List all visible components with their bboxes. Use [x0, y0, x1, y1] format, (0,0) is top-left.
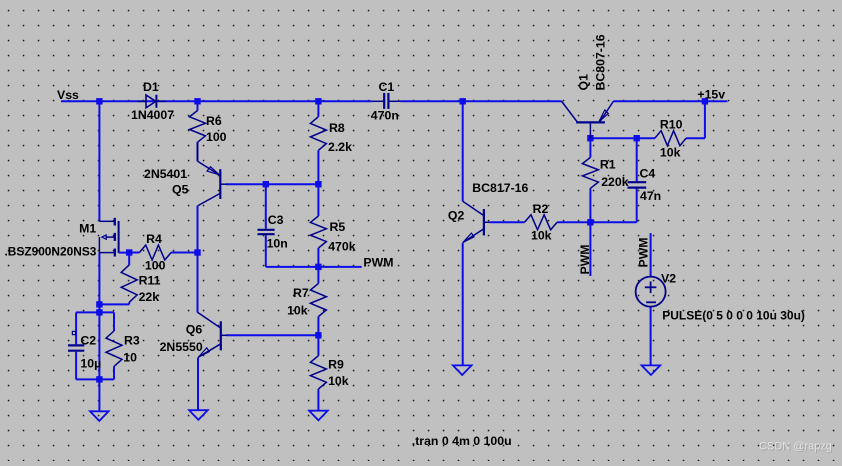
svg-text:R7: R7: [293, 286, 309, 300]
wire PWM stub above V2: [650, 233, 652, 277]
svg-text:.BSZ900N20NS3: .BSZ900N20NS3: [5, 245, 97, 259]
resistor R7: [310, 283, 326, 316]
ground at Q2 emitter: [453, 365, 472, 375]
svg-text:C3: C3: [268, 213, 284, 227]
transistor Q5 (PNP 2N5401): [198, 161, 228, 206]
resistor R11: [121, 265, 137, 302]
wire ground lead left: [98, 379, 100, 411]
wire V2 bottom lead: [650, 307, 652, 366]
wire C3 bottom lead: [265, 235, 267, 267]
wire Q5 collector to Q6 collector: [197, 206, 199, 313]
capacitor C2: [68, 331, 84, 350]
wire C3 top lead: [265, 184, 267, 229]
svg-text:C1: C1: [379, 80, 395, 94]
transistor Q2 (NPN BC817-16): [463, 201, 490, 242]
wire PWM stub below R2 node: [589, 222, 591, 276]
svg-text:PWM: PWM: [363, 255, 393, 269]
transistor Q6 (NPN 2N5550): [198, 312, 228, 357]
wire R11 bottom lead: [128, 302, 130, 304]
wire M1 source down: [98, 253, 100, 380]
junction R7 / R9 / Q6 base: [315, 332, 321, 338]
junction R10 / C4: [634, 135, 640, 141]
resistor R5: [310, 216, 326, 248]
svg-text:R9: R9: [328, 358, 344, 372]
ground at M1 source branch: [90, 411, 109, 421]
svg-text:BC807-16: BC807-16: [594, 34, 608, 90]
svg-text:100: 100: [206, 130, 227, 144]
wire C4 top lead: [636, 138, 638, 181]
wire Q6 base to divider: [226, 334, 318, 336]
wire R8 bottom lead: [317, 150, 319, 184]
ground at Q6 emitter: [189, 410, 208, 420]
wire R5 bottom lead: [317, 248, 319, 267]
junction C2-R3 bottom / ground: [96, 376, 102, 382]
transistor Q1 (PNP BC807-16): [561, 101, 613, 138]
junction R2 / R1 / PWM: [587, 219, 593, 225]
svg-text:1N4007: 1N4007: [131, 108, 174, 122]
svg-text:2N5401: 2N5401: [144, 167, 187, 181]
wire top rail middle segment: [401, 100, 562, 102]
resistor R1: [582, 157, 598, 188]
wire Q2 collector from top rail: [462, 101, 464, 201]
junction M1 gate / R4 / R11: [126, 249, 132, 255]
wire M1 drain from top rail: [98, 101, 100, 221]
wire C4 bottom lead: [636, 189, 638, 223]
svg-text:PULSE(0 5 0 0 0 10u 30u): PULSE(0 5 0 0 0 10u 30u): [662, 309, 805, 323]
wire R10 left lead: [637, 137, 655, 139]
resistor R3: [106, 331, 122, 366]
svg-text:10µ: 10µ: [80, 357, 101, 371]
resistor R4: [139, 245, 171, 260]
wire R7 bottom lead: [317, 317, 319, 336]
junction Q5 base / C3: [263, 181, 269, 187]
wire R4 right lead: [171, 252, 197, 254]
wire PWM stub at R5 node: [318, 266, 361, 268]
svg-text:10: 10: [123, 350, 137, 364]
capacitor C4: [628, 182, 647, 187]
wire R5 top lead: [317, 184, 319, 216]
svg-text:10k: 10k: [660, 146, 681, 160]
svg-text:10k: 10k: [287, 304, 308, 318]
junction top rail / R8: [315, 98, 321, 104]
wire R3 top lead: [113, 312, 115, 331]
wire top rail right segment: [614, 100, 728, 102]
wire R3 bottom lead: [113, 366, 115, 379]
wire R9 bottom lead: [317, 389, 319, 411]
svg-text:+15v: +15v: [697, 88, 725, 102]
svg-text:CSDN @rapzg: CSDN @rapzg: [759, 441, 832, 453]
svg-text:R5: R5: [330, 220, 346, 234]
svg-text:D1: D1: [143, 80, 159, 94]
svg-text:470n: 470n: [371, 109, 399, 123]
wire R8 top lead: [317, 101, 319, 116]
wire R1 top lead: [589, 138, 591, 157]
ground at V2: [642, 365, 661, 375]
svg-text:22k: 22k: [139, 290, 160, 304]
junction R11 / source rail: [96, 301, 102, 307]
wire Vss horizontal top rail left segment: [61, 100, 372, 102]
svg-text:PWM: PWM: [578, 244, 592, 274]
svg-text:PWM: PWM: [637, 237, 651, 267]
wire R11 bottom to source rail: [99, 303, 129, 305]
svg-text:2N5550: 2N5550: [160, 340, 203, 354]
wire C2 R3 top rail: [76, 311, 114, 313]
wire R1 node to C4: [590, 221, 636, 223]
wire R11 top lead: [128, 253, 130, 265]
svg-text:470k: 470k: [328, 240, 356, 254]
svg-text:Vss: Vss: [57, 88, 79, 102]
svg-text:R3: R3: [124, 333, 140, 347]
wire R2 left lead: [490, 221, 525, 223]
junction Vss / M1 drain: [96, 98, 102, 104]
svg-text:100: 100: [145, 259, 166, 273]
svg-text:Q2: Q2: [448, 208, 465, 222]
diode D1: [138, 95, 167, 108]
junction R4 / Q5-Q6 collectors: [194, 249, 200, 255]
transistor M1 (MOSFET): [99, 218, 129, 257]
wire R10 right lead: [686, 137, 705, 139]
svg-text:220k: 220k: [601, 175, 629, 189]
svg-text:.tran 0 4m 0 100u: .tran 0 4m 0 100u: [412, 434, 512, 448]
svg-text:Q1: Q1: [577, 74, 591, 91]
svg-text:R1: R1: [600, 158, 616, 172]
junction R8 / R5: [315, 181, 321, 187]
watermark CSDN: [759, 441, 833, 454]
junction top rail / Q2: [460, 98, 466, 104]
wire R6 bottom lead: [197, 142, 199, 161]
wire R9 top lead: [317, 335, 319, 355]
svg-text:10k: 10k: [328, 374, 349, 388]
junction top rail / +15v: [702, 98, 708, 104]
wire R1 bottom lead: [589, 188, 591, 222]
svg-text:10k: 10k: [531, 229, 552, 243]
svg-text:C2: C2: [80, 333, 96, 347]
svg-text:47n: 47n: [640, 189, 661, 203]
junction R5 / R7 / PWM: [315, 264, 321, 270]
junction top rail / R6: [194, 98, 200, 104]
svg-text:R2: R2: [533, 202, 549, 216]
svg-text:V2: V2: [661, 272, 676, 286]
svg-text:Q6: Q6: [186, 322, 203, 336]
svg-text:R8: R8: [329, 121, 345, 135]
resistor R2: [525, 215, 558, 230]
svg-text:Q5: Q5: [172, 183, 189, 197]
wire R4 left lead: [129, 252, 139, 254]
svg-text:R10: R10: [660, 118, 683, 132]
wire Q1 base node to R10: [590, 137, 636, 139]
resistor R6: [190, 111, 206, 162]
capacitor C3: [258, 230, 275, 234]
ground at R9: [309, 411, 328, 421]
svg-text:M1: M1: [79, 222, 96, 236]
wire C2 R3 bottom rail: [76, 378, 114, 380]
wire C2 bottom lead: [75, 352, 77, 380]
svg-text:C4: C4: [640, 166, 656, 180]
wire Q2 emitter down: [462, 243, 464, 366]
resistor R10: [655, 131, 686, 146]
resistor R8: [310, 117, 326, 151]
svg-text:R11: R11: [139, 274, 161, 288]
wire Q5 base to node: [226, 183, 318, 185]
voltage source V2: [636, 277, 666, 307]
svg-text:10n: 10n: [267, 237, 288, 251]
svg-text:R6: R6: [206, 114, 222, 128]
wire R7 top lead: [317, 267, 319, 284]
resistor R9: [310, 356, 326, 389]
wire C2 top lead: [75, 312, 77, 344]
wire R6 top lead: [197, 101, 199, 110]
wire R2 right lead: [557, 221, 590, 223]
wire +15v drop to R10: [704, 101, 706, 138]
junction Q1 base / R1: [587, 135, 593, 141]
wire Q6 emitter down: [197, 357, 199, 410]
capacitor C1: [372, 93, 401, 109]
svg-text:BC817-16: BC817-16: [472, 181, 528, 195]
svg-text:2.2k: 2.2k: [328, 140, 352, 154]
junction C2-R3 rail / source: [96, 309, 102, 315]
svg-text:R4: R4: [146, 232, 162, 246]
wire C3 bottom to R5 node: [266, 266, 319, 268]
